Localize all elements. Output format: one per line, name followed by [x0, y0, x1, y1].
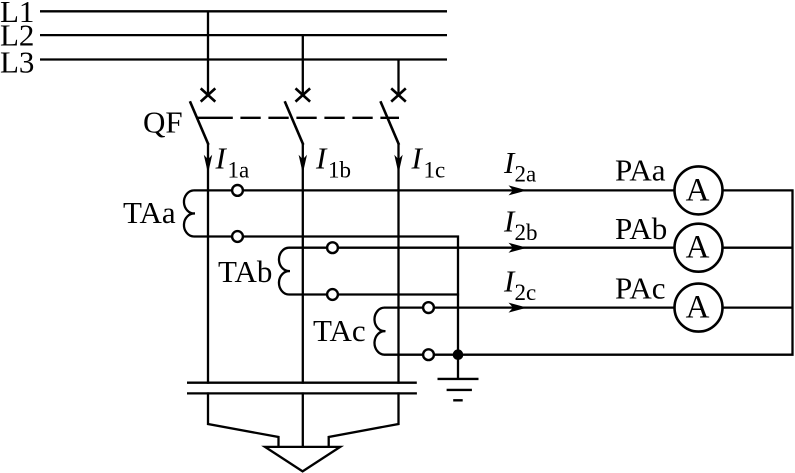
breaker QF blade phase a: [190, 101, 209, 145]
ammeter PAc: [675, 284, 723, 332]
wire phase c drop from L3 to breaker: [397, 60, 399, 94]
svg-text:PAb: PAb: [615, 211, 667, 246]
current arrow I1a: [204, 155, 212, 174]
wire phase c vertical (breaker to load bus): [397, 144, 399, 384]
CT TAa secondary winding brace: [184, 190, 195, 236]
current arrow I2a: [509, 185, 528, 195]
breaker contact X phase a: [201, 88, 216, 101]
current arrow I1c: [394, 155, 402, 174]
svg-text:I: I: [411, 141, 424, 176]
svg-text:2a: 2a: [515, 161, 537, 186]
ammeter PAa: [675, 166, 723, 214]
svg-text:TAa: TAa: [123, 195, 176, 230]
svg-text:A: A: [686, 290, 710, 326]
bus L2: [40, 34, 447, 36]
wire phase b drop from L2 to breaker: [302, 35, 304, 93]
wire TAc secondary top (to ammeter PAc): [384, 306, 675, 308]
ground bar 1: [438, 378, 479, 380]
wire phase a vertical (breaker to load bus): [207, 144, 209, 384]
svg-text:A: A: [686, 172, 710, 208]
ground stub: [457, 355, 459, 379]
junction dot (star point): [453, 349, 464, 360]
load arrow head: [265, 447, 340, 472]
svg-text:PAc: PAc: [615, 271, 666, 306]
svg-text:2b: 2b: [515, 220, 538, 245]
current arrow I2b: [509, 243, 528, 253]
load funnel right diagonal: [329, 392, 399, 447]
breaker QF blade phase c: [380, 101, 399, 145]
svg-text:QF: QF: [143, 104, 183, 139]
breaker contact X phase b: [296, 88, 311, 101]
terminal TAa bottom: [232, 231, 243, 242]
bus L3: [40, 58, 447, 60]
ground bar 2: [447, 389, 472, 391]
wire TAa secondary bottom (to common): [194, 237, 459, 355]
svg-text:2c: 2c: [515, 280, 537, 305]
svg-text:1c: 1c: [424, 158, 446, 183]
CT TAc secondary winding brace: [374, 308, 385, 355]
ammeter PAb: [675, 224, 723, 272]
breaker QF blade phase b: [285, 101, 304, 145]
svg-text:PAa: PAa: [615, 152, 666, 187]
current arrow I1b: [299, 155, 307, 174]
wire TAa secondary top (to ammeter PAa): [194, 189, 675, 191]
svg-text:I: I: [315, 141, 328, 176]
wire phase b vertical (breaker to load arrow): [302, 144, 304, 384]
wire TAb secondary top (to ammeter PAb): [289, 247, 675, 249]
breaker contact X phase c: [391, 88, 406, 101]
wire TAb secondary bottom (to common): [289, 293, 460, 295]
load busbar line 2: [187, 392, 417, 394]
bus L1: [40, 10, 447, 12]
wire PAb to right bus: [722, 247, 792, 249]
breaker QF linkage dashed line: [198, 117, 400, 119]
load busbar line 1: [187, 382, 417, 384]
terminal TAb top: [327, 242, 338, 253]
wire phase a drop from L1 to breaker: [207, 11, 209, 93]
terminal TAc top: [423, 302, 434, 313]
svg-text:L3: L3: [0, 45, 34, 80]
wire PAc to right bus: [722, 306, 792, 308]
svg-text:1a: 1a: [228, 158, 250, 183]
terminal TAc bottom: [423, 349, 434, 360]
svg-text:TAc: TAc: [313, 313, 366, 348]
svg-text:1b: 1b: [328, 158, 351, 183]
current arrow I2c: [509, 303, 528, 313]
load funnel left diagonal: [208, 392, 279, 447]
ground bar 3: [453, 399, 463, 401]
CT TAb secondary winding brace: [279, 248, 290, 295]
wire TAc secondary bottom (common return to ammeters): [384, 190, 793, 354]
terminal TAb bottom: [327, 289, 338, 300]
svg-text:I: I: [215, 141, 228, 176]
svg-text:A: A: [686, 230, 710, 266]
svg-text:TAb: TAb: [218, 254, 272, 289]
terminal TAa top: [232, 185, 243, 196]
wire load center (phase b below busbar): [302, 392, 304, 447]
